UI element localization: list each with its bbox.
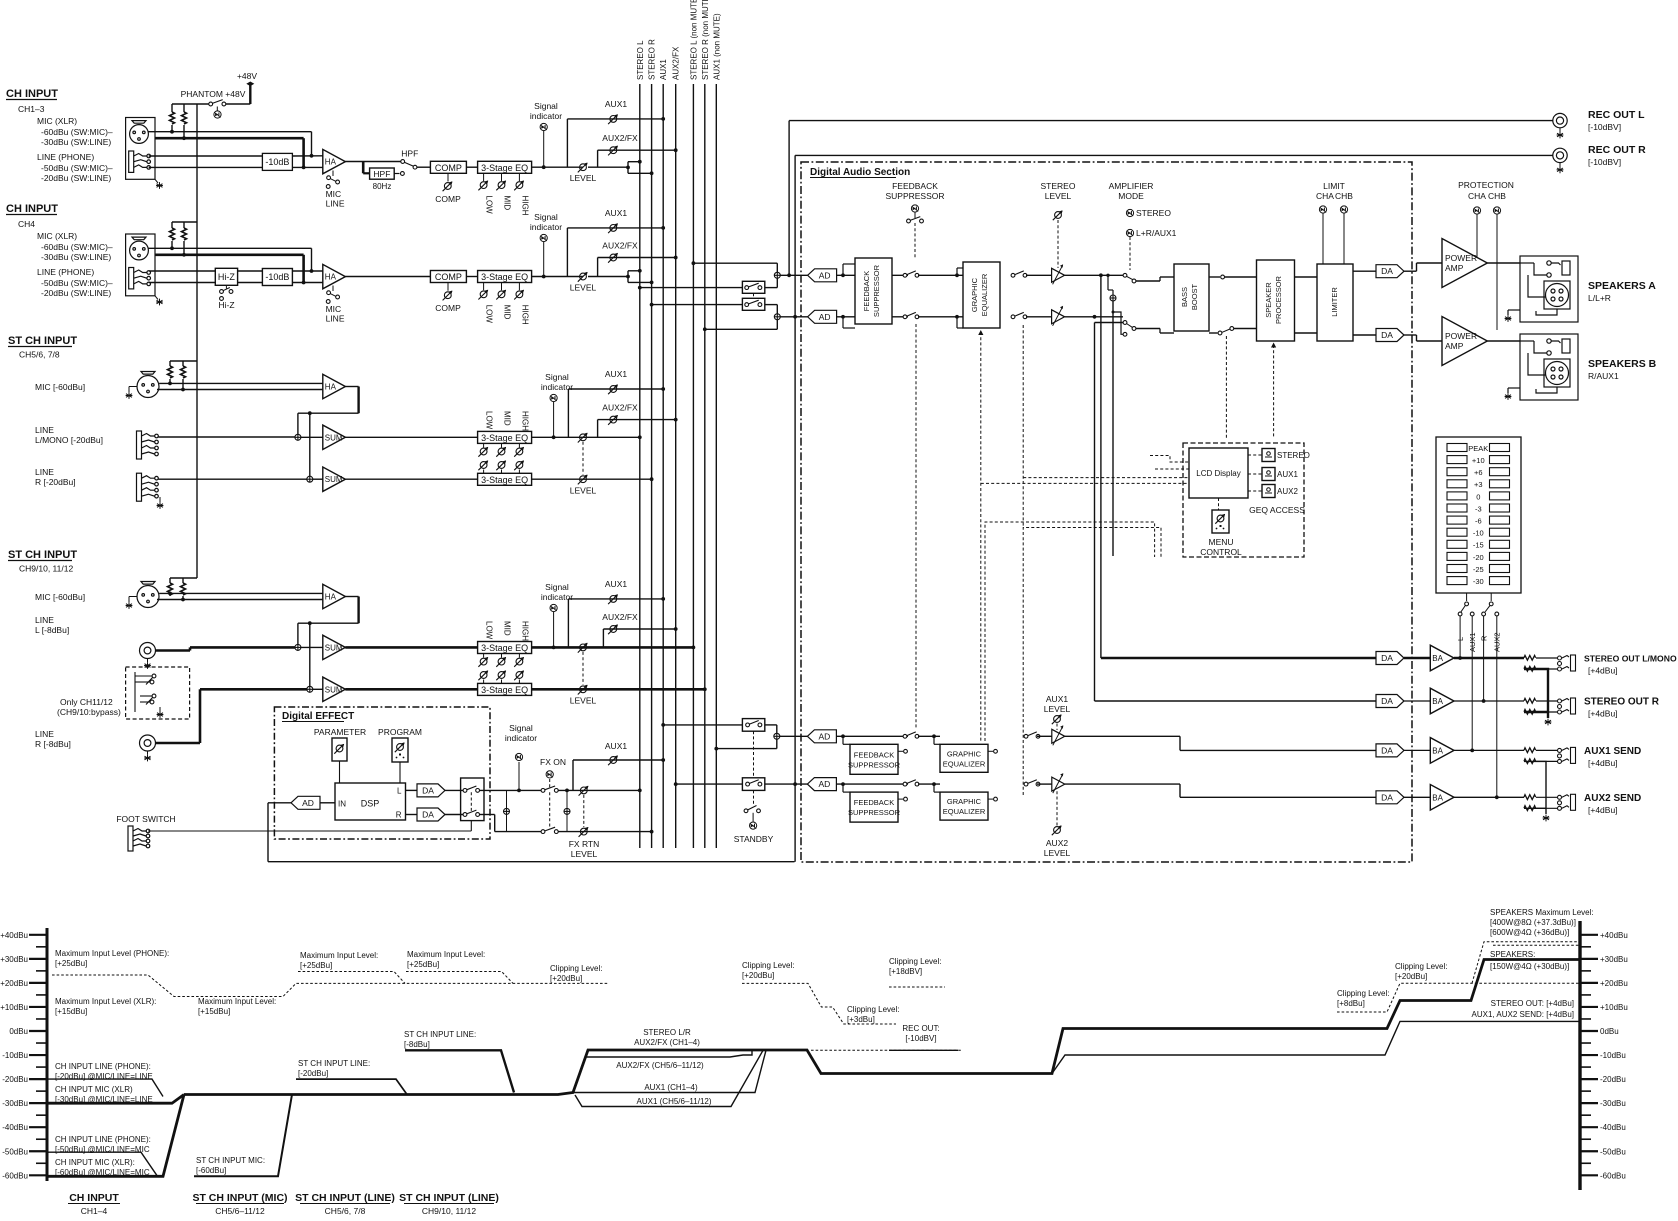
svg-text:LEVEL: LEVEL [570, 696, 597, 706]
svg-text:-60dBu: -60dBu [1600, 1171, 1626, 1180]
svg-text:Signal: Signal [534, 212, 558, 222]
junction MIC/LINE lower CH4 [302, 281, 306, 285]
tick left 40dBu [29, 934, 47, 936]
svg-text:STEREO: STEREO [1277, 451, 1310, 460]
resistor R4a phantom CH4 [170, 228, 175, 240]
wire to AD stereo R [780, 316, 807, 318]
wire GEQ to level L [1026, 274, 1052, 276]
ground SPEAKERS A [1505, 315, 1512, 322]
svg-text:[-20dBu] @MIC/LINE=LINE: [-20dBu] @MIC/LINE=LINE [55, 1072, 153, 1081]
pot AUX1 LEVEL [1052, 714, 1062, 724]
switch FS bypass R [903, 312, 919, 318]
wire HA sum drop R CH9/10 [309, 623, 311, 686]
svg-text:Clipping Level:: Clipping Level: [550, 964, 602, 973]
trace ST CH INPUT LINE -8dBu [405, 1050, 514, 1092]
svg-text:+40dBu: +40dBu [0, 931, 28, 940]
svg-text:DA: DA [1381, 745, 1393, 755]
wire REC OUT L [789, 120, 1553, 122]
svg-text:[600W@4Ω (+36dBu)]: [600W@4Ω (+36dBu)] [1490, 928, 1569, 937]
encoder MENU CONTROL [1212, 510, 1229, 533]
svg-text:CH5/6, 7/8: CH5/6, 7/8 [19, 350, 60, 360]
tick left -10dBu [29, 1054, 47, 1056]
tick left -50dBu [29, 1150, 47, 1152]
tick right -60dBu [1580, 1174, 1598, 1176]
wire to AD stereo L [780, 274, 807, 276]
wire AUX2/FX send CH9/10 [603, 628, 675, 630]
svg-text:LOW: LOW [485, 305, 494, 324]
wire EQ pot stub upper HIGH CH9/10 [518, 654, 520, 658]
wire level L to amp mode [1065, 274, 1123, 276]
svg-text:PROTECTION: PROTECTION [1458, 180, 1514, 190]
wire AUX2 level dash [1056, 790, 1058, 826]
pot AUX2/FX CH9/10 [608, 624, 618, 634]
svg-text:SPEAKERS B: SPEAKERS B [1588, 358, 1657, 370]
junction nonMUTE R tap [703, 327, 707, 331]
wire mute AUX2 out [765, 783, 808, 785]
svg-text:LIMIT: LIMIT [1323, 181, 1345, 191]
resistor R9a phantom CH9/10 [168, 583, 173, 595]
meter cell R -6 [1490, 516, 1510, 524]
wire LINE R to sum CH9/10 (thick) [200, 688, 307, 691]
amplifier STEREO LEVEL R [1052, 310, 1065, 324]
svg-text:[-50dBu] @MIC/LINE=MIC: [-50dBu] @MIC/LINE=MIC [55, 1145, 150, 1154]
svg-text:L: L [397, 787, 402, 796]
converter AD stereo L [808, 269, 837, 282]
svg-text:ST CH INPUT (LINE): ST CH INPUT (LINE) [295, 1192, 395, 1204]
svg-text:MIC (XLR): MIC (XLR) [37, 116, 77, 126]
svg-text:-20dBu (SW:LINE): -20dBu (SW:LINE) [41, 173, 111, 183]
meter cell L -10 [1447, 528, 1467, 536]
wire EQ R out CH5/6 [532, 478, 652, 480]
connector XLR CH1-3 [130, 121, 149, 144]
wire protection CHB link [1496, 215, 1498, 331]
wire AUX2 to mute switch [676, 783, 743, 785]
wire DA to BA STEREO OUT L [1404, 657, 1430, 660]
wire housing ground CH4 [155, 296, 158, 300]
pot EQ LOW upper CH5/6 [478, 447, 488, 457]
op-amp HA CH9/10 [323, 584, 346, 608]
processor FEEDBACK SUPPRESSOR AUX2 [850, 792, 898, 822]
wire protection CHA link [1476, 215, 1478, 258]
pot EQ HIGH upper CH5/6 [514, 447, 524, 457]
svg-text:Clipping Level:: Clipping Level: [1337, 989, 1389, 998]
pot PROGRAM [395, 742, 405, 752]
trace CH INPUT LINE PHONE -20dBu [47, 1079, 163, 1096]
switch AMPLIFIER MODE lower [1123, 321, 1136, 337]
trace dashed maximum input PHONE +25dBu [52, 975, 609, 997]
wire MIC cold CH5/6 [157, 389, 323, 391]
wire DA to power amp B [1404, 334, 1417, 336]
svg-text:DA: DA [1381, 653, 1393, 663]
node sum L CH5/6 [295, 434, 301, 440]
resistor output b AUX2 SEND [1524, 806, 1536, 811]
wire FX ON gang upper [549, 779, 551, 788]
wire EQ pot stub upper MID CH9/10 [501, 654, 503, 658]
wire +48V feed [249, 84, 251, 104]
node FX indicator sum [504, 808, 510, 814]
trace CH INPUT MIC XLR -60dBu (thick) [47, 1095, 184, 1177]
switch Hi-Z CH4 [220, 285, 233, 300]
wire HA sum drop R CH5/6 [309, 413, 311, 476]
svg-text:AD: AD [818, 779, 830, 789]
svg-text:LINE (PHONE): LINE (PHONE) [37, 267, 94, 277]
svg-text:HA: HA [325, 158, 337, 167]
tick left -60dBu [29, 1174, 47, 1176]
svg-text:ST CH INPUT (LINE): ST CH INPUT (LINE) [399, 1192, 499, 1204]
meter cell L -3 [1447, 504, 1467, 512]
wire AUX2/FX send CH4 [598, 257, 676, 259]
wire GEQ tap AUX1 [934, 743, 940, 745]
wire AD out AUX2 [836, 783, 908, 785]
pot LEVEL lower CH9/10 [578, 685, 588, 695]
svg-text:SUPPRESSOR: SUPPRESSOR [872, 264, 881, 317]
svg-text:Maximum Input Level:: Maximum Input Level: [300, 951, 378, 960]
equalizer 3-Stage EQ L CH5/6 [478, 431, 532, 443]
wire REC OUT L ground [1559, 128, 1561, 132]
section box LCD control [1183, 443, 1304, 557]
svg-text:SUPPRESSOR: SUPPRESSOR [848, 760, 901, 769]
svg-text:+3: +3 [1474, 480, 1483, 489]
switch box Only CH11/12 [126, 667, 190, 719]
pot EQ HIGH CH1 [514, 181, 524, 191]
junction REC OUT L tap [787, 273, 791, 277]
LED STEREO mode [1126, 209, 1133, 216]
wire AUX2/FX tap CH4 [597, 258, 599, 277]
wire amp mode lower out [1136, 328, 1160, 330]
svg-text:PROGRAM: PROGRAM [378, 727, 422, 737]
wire stereo L to output riser [1100, 275, 1102, 658]
tick left -20dBu [29, 1078, 47, 1080]
LED phantom indicator [214, 111, 221, 118]
svg-text:MODE: MODE [1118, 191, 1144, 201]
op-amp HA CH5/6 [323, 374, 346, 398]
wire HA out CH5/6 [345, 386, 358, 388]
svg-text:GRAPHIC: GRAPHIC [947, 749, 982, 758]
wire mute L out [765, 287, 778, 289]
svg-text:R/AUX1: R/AUX1 [1588, 371, 1619, 381]
wire AUX2 to DA [1180, 796, 1376, 798]
wire AUX1 tap CH9/10 [567, 599, 569, 648]
tick right minor -45dBu [1580, 1138, 1591, 1140]
wire resistor R1a top [171, 104, 173, 112]
svg-text:HPF: HPF [373, 169, 390, 179]
connector phone jack CH1-3 [129, 151, 151, 172]
pot COMP CH1 [443, 181, 453, 191]
svg-text:COMP: COMP [435, 272, 462, 282]
pot EQ HIGH CH4 [514, 290, 524, 300]
wire -10dB out upper CH1 [292, 155, 322, 157]
wire EQ pot stub lower LOW CH9/10 [483, 680, 485, 684]
wire EQ pot stub MID CH1 [501, 173, 503, 181]
svg-text:[+20dBu]: [+20dBu] [1395, 972, 1427, 981]
svg-text:L [-8dBu]: L [-8dBu] [35, 625, 69, 635]
ground REC OUT L [1557, 132, 1564, 139]
pot EQ HIGH lower CH9/10 [514, 670, 524, 680]
svg-text:ST CH INPUT MIC:: ST CH INPUT MIC: [196, 1156, 265, 1165]
junction STEREO L bus CH5/6 [638, 435, 642, 439]
switch FX bypass L [463, 786, 479, 792]
wire resistor R1a bottom [171, 125, 173, 132]
meter cell L +6 [1447, 468, 1467, 476]
wire phantom branch CH4 [172, 221, 197, 223]
wire DA to BA AUX1 SEND [1404, 749, 1430, 751]
contact HPF common CH1 [413, 165, 417, 169]
trace dashed REC OUT -10dBV [811, 1049, 961, 1051]
junction nonMUTE L tap [692, 261, 696, 265]
svg-text:[-10dBV]: [-10dBV] [1588, 122, 1621, 132]
svg-text:PROCESSOR: PROCESSOR [1274, 275, 1283, 324]
wire AUX1 level out [1065, 735, 1180, 737]
svg-text:FX RTN: FX RTN [569, 839, 600, 849]
wire LCD to button STEREO [1248, 454, 1262, 456]
connector REC OUT L [1553, 113, 1567, 127]
svg-text:CH4: CH4 [18, 219, 35, 229]
svg-text:STEREO OUT: [+4dBu]: STEREO OUT: [+4dBu] [1491, 999, 1574, 1008]
svg-text:HIGH: HIGH [520, 621, 529, 641]
wire mute gang stereo [753, 293, 755, 298]
LED signal indicator CH5/6 [550, 394, 557, 401]
wire FS to GEQ AUX2 [918, 783, 940, 785]
svg-text:DA: DA [1381, 696, 1393, 706]
junction AUX1 bus CH5/6 [661, 387, 665, 391]
processor FEEDBACK SUPPRESSOR AUX1 [850, 744, 898, 774]
svg-text:DSP: DSP [361, 799, 380, 809]
button GEQ ACCESS AUX1 [1262, 468, 1275, 481]
junction FX indicator L [517, 789, 521, 793]
svg-text:L+R/AUX1: L+R/AUX1 [1136, 228, 1177, 238]
wire resistor R1b top [183, 104, 185, 112]
switch GEQ bypass AUX1 [1024, 732, 1040, 738]
svg-text:ST CH INPUT: ST CH INPUT [8, 335, 77, 347]
wire LINE ring CH1 [149, 166, 263, 168]
switch FX ON L [541, 786, 558, 792]
LED feedback suppressor [911, 205, 918, 212]
svg-text:-30dBu: -30dBu [2, 1099, 28, 1108]
wire AUX2/FX tap CH9/10 [602, 629, 604, 647]
wire MIC cold CH1 (thick) [155, 137, 304, 140]
svg-text:BOOST: BOOST [1190, 283, 1199, 310]
svg-text:STEREO L: STEREO L [636, 40, 645, 80]
svg-text:DA: DA [1381, 330, 1393, 340]
junction R9a MIC CH9/10 [168, 592, 172, 596]
wire REC OUT L riser [788, 121, 790, 276]
LED signal indicator CH9/10 [550, 604, 557, 611]
wire SUM R to EQ CH9/10 (thick) [345, 688, 477, 691]
switch HPF CH1 [401, 160, 405, 164]
svg-text:L/MONO [-20dBu]: L/MONO [-20dBu] [35, 435, 103, 445]
trace ST CH INPUT MIC -60dBu [194, 1095, 292, 1177]
svg-text:REC OUT:: REC OUT: [902, 1024, 939, 1033]
wire meter stub L [1466, 593, 1468, 601]
+48V terminal [246, 82, 254, 87]
switch GEQ bypass L [1011, 271, 1027, 277]
amplifier SUM R CH5/6 [323, 467, 346, 491]
wire meter L pickup [1459, 616, 1461, 658]
ground SPEAKERS B [1505, 393, 1512, 400]
tick left minor -15dBu [36, 1066, 47, 1068]
svg-text:HA: HA [325, 383, 337, 392]
wire foot switch [148, 830, 471, 832]
svg-text:[+20dBu]: [+20dBu] [550, 974, 582, 983]
wire FX signal indicator [518, 762, 520, 790]
svg-text:Clipping Level:: Clipping Level: [889, 957, 941, 966]
pot FX RTN LEVEL L [579, 786, 589, 796]
junction FS in L [841, 273, 845, 277]
svg-text:AUX1: AUX1 [1046, 694, 1068, 704]
LED signal indicator CH1 [540, 123, 547, 130]
svg-text:SUPPRESSOR: SUPPRESSOR [848, 808, 901, 817]
trace dashed maximum input ST line 1 +25dBu [298, 972, 405, 984]
button GEQ ACCESS STEREO [1262, 449, 1275, 462]
connector SPEAKERS B [1520, 334, 1578, 400]
wire speaker processor control dash [1273, 345, 1275, 438]
LED STANDBY [750, 822, 757, 829]
svg-text:-10dBu: -10dBu [1600, 1051, 1626, 1060]
svg-text:SPEAKER: SPEAKER [1264, 282, 1273, 318]
section box Digital Audio Section [801, 162, 1412, 862]
connector housing CH1-3 [126, 118, 155, 180]
wire AUX1 tap CH5/6 [567, 389, 569, 437]
junction meter tap R [1093, 315, 1097, 319]
wire GEQ L control dash [981, 332, 1189, 741]
switch GEQ bypass R [1011, 312, 1027, 318]
contact FS out AUX2 [904, 797, 908, 801]
svg-text:CH INPUT: CH INPUT [6, 203, 58, 215]
svg-text:Signal: Signal [545, 582, 569, 592]
wire stereo out ground bus (thick) [1524, 669, 1548, 718]
ground RCA L CH9/10 [144, 662, 151, 669]
converter AD AUX1 [807, 730, 836, 743]
svg-text:DA: DA [1381, 266, 1393, 276]
svg-text:3-Stage EQ: 3-Stage EQ [481, 433, 528, 443]
wire RCA R ground stub CH9/10 [147, 751, 149, 755]
meter cell R -10 [1490, 528, 1510, 536]
junction AUX1 bus CH4 [661, 226, 665, 230]
junction AUX2/FX bus CH1 [674, 148, 678, 152]
pot AUX1 FX return [608, 755, 618, 765]
junction GEQ in AUX2 [932, 782, 936, 786]
converter AD AUX2 [807, 778, 836, 791]
wire pan L CH4 [628, 270, 640, 272]
converter DA AUX1 SEND [1376, 744, 1404, 757]
wire LCD to button AUX2 [1248, 490, 1262, 492]
tick left minor -25dBu [36, 1090, 47, 1092]
svg-text:COMP: COMP [435, 194, 461, 204]
pot LEVEL upper CH5/6 [578, 433, 588, 443]
connector phone jack L CH5/6 [137, 431, 159, 459]
resistor output b AUX1 SEND [1524, 759, 1536, 764]
wire limit CHA link [1322, 214, 1324, 265]
connector jack AUX1 SEND [1558, 747, 1576, 763]
svg-text:AUX1: AUX1 [605, 99, 627, 109]
wire SUM L to EQ CH9/10 (thick) [345, 646, 477, 649]
svg-text:MID: MID [503, 621, 512, 636]
meter cell R +10 [1490, 456, 1510, 464]
wire LINE R CH9/10 (thick) [156, 742, 201, 745]
tick right minor 25dBu [1580, 970, 1591, 972]
wire EQ pot stub LOW CH1 [483, 173, 485, 181]
svg-text:AUX2/FX (CH5/6–11/12): AUX2/FX (CH5/6–11/12) [616, 1061, 704, 1070]
button GEQ ACCESS AUX2 [1262, 485, 1275, 498]
svg-text:-30dBu (SW:LINE): -30dBu (SW:LINE) [41, 137, 111, 147]
wire STEREO OUT R feed [1095, 700, 1377, 702]
wire amp mode upper out [1136, 280, 1160, 282]
svg-text:AMPLIFIER: AMPLIFIER [1109, 181, 1154, 191]
svg-text:3-Stage EQ: 3-Stage EQ [481, 272, 528, 282]
junction bus L mute tap [638, 286, 642, 290]
wire HA out CH9/10 [345, 596, 358, 598]
wire phantom feed vertical [196, 104, 198, 578]
svg-text:-40dBu: -40dBu [1600, 1123, 1626, 1132]
wire HA out drop CH9/10 [357, 597, 359, 624]
wire LINE L to sum CH9/10 (thick) [190, 646, 295, 649]
tick left minor -45dBu [36, 1138, 47, 1140]
wire EQ pot stub upper LOW CH9/10 [483, 654, 485, 658]
meter cell L -6 [1447, 516, 1467, 524]
svg-text:CH INPUT LINE (PHONE):: CH INPUT LINE (PHONE): [55, 1135, 151, 1144]
wire DA to power amp A [1404, 270, 1417, 272]
trace CH INPUT LINE PHONE -50dBu [47, 1152, 158, 1176]
amplifier BA AUX1 SEND [1430, 738, 1454, 764]
pot AUX1 CH9/10 [608, 594, 618, 604]
resistor R1b phantom CH1 [182, 112, 187, 124]
connector RCA jack L CH9/10 [140, 643, 156, 659]
amplifier POWER AMP A [1442, 239, 1487, 288]
resistor output b STEREO OUT L [1524, 666, 1536, 671]
tick left minor -55dBu [36, 1162, 47, 1164]
svg-text:AUX2/FX (CH1–4): AUX2/FX (CH1–4) [634, 1038, 700, 1047]
svg-text:LINE: LINE [35, 425, 54, 435]
wire MIC cold CH4 (thick) [155, 254, 304, 257]
wire GEQ tap L [957, 267, 963, 269]
converter DA AUX2 SEND [1376, 791, 1404, 804]
wire AUX1 nonMUTE feed [716, 748, 777, 750]
svg-text:[+20dBu]: [+20dBu] [742, 971, 774, 980]
wire GEQ R control dash [1023, 325, 1189, 528]
junction meter AUX2 [1495, 795, 1499, 799]
junction bus R mute tap [650, 303, 654, 307]
svg-text:MID: MID [503, 196, 512, 211]
wire EQ pot stub lower HIGH CH9/10 [518, 680, 520, 684]
tick right -10dBu [1580, 1054, 1598, 1056]
svg-text:LINE: LINE [35, 467, 54, 477]
junction AUX1 bus FX [661, 758, 665, 762]
wire FX feed bottom run [268, 861, 795, 863]
svg-text:ST CH INPUT LINE:: ST CH INPUT LINE: [298, 1059, 370, 1068]
wire EQ pot stub LOW CH4 [483, 283, 485, 291]
svg-text:CH5/6, 7/8: CH5/6, 7/8 [325, 1206, 366, 1216]
svg-text:COMP: COMP [435, 163, 462, 173]
svg-text:HA: HA [325, 273, 337, 282]
junction FS in AUX2 [841, 782, 845, 786]
junction R1a to MIC line [170, 130, 174, 134]
wire AUX1 send CH4 [567, 227, 663, 229]
svg-text:-10dB: -10dB [265, 272, 289, 282]
switch bass boost bypass [1222, 329, 1230, 332]
pot EQ MID lower CH9/10 [496, 670, 506, 680]
op-amp HA head amplifier CH1 [323, 149, 346, 173]
meter cell L PEAK [1447, 444, 1467, 452]
wire XLR gnd stub CH9/10 [129, 596, 137, 598]
wire STEREO L to mute switch [640, 287, 743, 289]
switch box FX bypass [461, 778, 484, 821]
wire FX R out [480, 814, 495, 816]
junction pan split CH1 [626, 166, 630, 170]
svg-text:SPEAKERS:: SPEAKERS: [1490, 950, 1535, 959]
wire AUX2/FX tap CH5/6 [597, 420, 599, 438]
processor GRAPHIC EQUALIZER stereo [963, 262, 1000, 328]
svg-text:+6: +6 [1474, 468, 1483, 477]
